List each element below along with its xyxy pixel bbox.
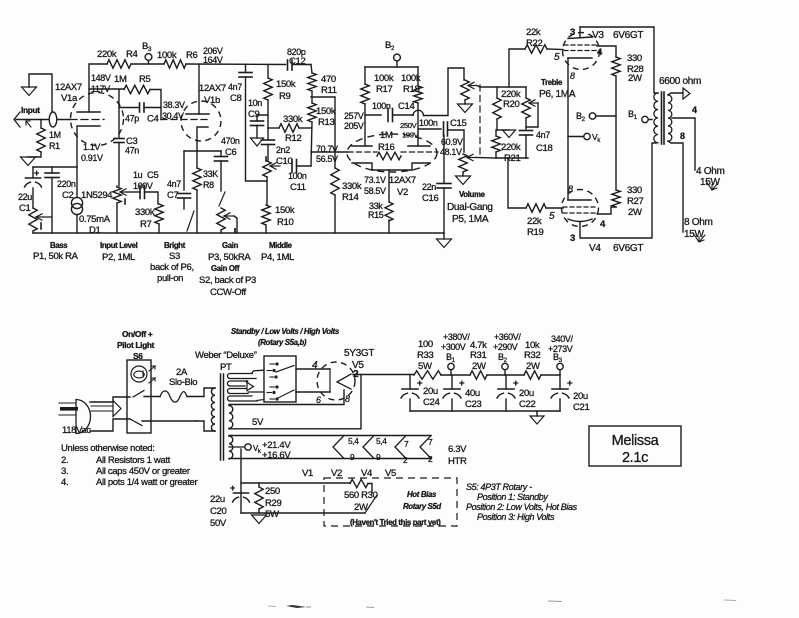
resistor R7 330k bbox=[155, 204, 163, 224]
rotary switch S5a,b box bbox=[264, 356, 296, 402]
capacitor C4 47p (across R5) bbox=[119, 90, 140, 108]
wire R4 to B3 node bbox=[131, 63, 164, 65]
capacitor C10 2n2 bbox=[267, 128, 269, 140]
svg-text:C2: C2 bbox=[62, 190, 74, 201]
resistor R30 560 2W bbox=[350, 479, 368, 487]
svg-text:P2, 1ML: P2, 1ML bbox=[102, 252, 135, 263]
AC plug bbox=[59, 402, 75, 404]
svg-text:Position 3: High Volts: Position 3: High Volts bbox=[477, 512, 555, 522]
svg-text:R9: R9 bbox=[279, 91, 291, 102]
wire screen supply node bbox=[615, 76, 617, 190]
svg-text:22u: 22u bbox=[18, 192, 32, 202]
PT HV center tap arrow bbox=[247, 383, 254, 391]
svg-text:+360V/: +360V/ bbox=[494, 332, 521, 342]
svg-text:C5: C5 bbox=[147, 170, 159, 181]
capacitor C9 10n with ground bbox=[257, 115, 268, 121]
svg-text:S2, back of P3: S2, back of P3 bbox=[199, 275, 256, 286]
S5b contacts bbox=[275, 385, 278, 388]
potentiometer P1 bass 50k RA bbox=[29, 208, 37, 231]
svg-text:118Vac: 118Vac bbox=[62, 425, 91, 436]
V3 screen lead to R28 bbox=[597, 46, 616, 57]
svg-text:1N5294: 1N5294 bbox=[81, 190, 113, 201]
P5 lower wiper arrow bbox=[467, 157, 476, 159]
V2 left plate bbox=[352, 145, 372, 147]
heater line top bbox=[229, 435, 431, 437]
resistor R18 100k bbox=[414, 86, 422, 103]
PT HV top lead to rotary bbox=[252, 370, 264, 373]
V2 right plate bbox=[408, 145, 430, 147]
PT core bbox=[220, 374, 222, 460]
terminal Vk bias tap bbox=[229, 446, 245, 448]
svg-text:12AX7: 12AX7 bbox=[55, 82, 82, 93]
V1a plate bbox=[77, 111, 100, 113]
svg-text:40u: 40u bbox=[465, 388, 480, 399]
svg-text:58.5V: 58.5V bbox=[364, 186, 386, 196]
svg-text:150k: 150k bbox=[276, 79, 296, 90]
scan smudge bottom bbox=[286, 605, 306, 608]
svg-text:2n2: 2n2 bbox=[276, 145, 290, 155]
svg-text:2W: 2W bbox=[628, 207, 642, 218]
PT 5V winding bbox=[229, 406, 233, 429]
svg-text:Unless otherwise noted:: Unless otherwise noted: bbox=[61, 443, 155, 454]
svg-text:9: 9 bbox=[350, 452, 355, 462]
switch S5d blade bbox=[365, 495, 377, 513]
S5a arm bbox=[276, 366, 294, 373]
V2 left plate lead / R17 bbox=[364, 104, 366, 146]
svg-text:C14: C14 bbox=[398, 101, 415, 112]
resistor R27 330 2W bbox=[612, 190, 620, 207]
output transformer OT primary winding bbox=[654, 93, 658, 143]
svg-text:5: 5 bbox=[554, 52, 560, 63]
svg-text:C15: C15 bbox=[450, 118, 466, 129]
svg-text:Bass: Bass bbox=[50, 241, 68, 250]
resistor R33 100 5W bbox=[414, 371, 441, 379]
svg-text:1: 1 bbox=[634, 114, 638, 121]
wire cathode rail to C1/C2/D1 bbox=[33, 166, 77, 168]
svg-text:R29: R29 bbox=[265, 498, 281, 509]
svg-text:back of P6,: back of P6, bbox=[150, 262, 194, 273]
capacitor C14 100n bbox=[365, 114, 381, 116]
svg-text:50V: 50V bbox=[210, 518, 227, 529]
svg-text:8: 8 bbox=[570, 71, 575, 81]
V1b plate bbox=[186, 113, 209, 115]
svg-text:C12: C12 bbox=[289, 56, 305, 67]
svg-text:V2: V2 bbox=[397, 187, 408, 198]
svg-text:R16: R16 bbox=[378, 142, 394, 153]
svg-text:R7: R7 bbox=[140, 219, 152, 230]
svg-text:4: 4 bbox=[600, 219, 606, 230]
svg-text:4: 4 bbox=[692, 105, 697, 115]
svg-text:3: 3 bbox=[570, 27, 575, 38]
wire R5 to V1b grid bbox=[150, 90, 161, 120]
wire input jack to V1a grid bbox=[16, 119, 70, 121]
resistor R1 1M bbox=[40, 120, 42, 129]
svg-text:47n: 47n bbox=[125, 146, 139, 156]
svg-text:pull-on: pull-on bbox=[157, 273, 183, 284]
resistor R4 220k bbox=[107, 60, 131, 68]
S5b arm bbox=[277, 390, 294, 399]
svg-text:2: 2 bbox=[403, 455, 408, 465]
wire plug to S6 bottom bbox=[90, 419, 130, 431]
svg-text:+: + bbox=[34, 168, 39, 178]
svg-text:4 Ohm: 4 Ohm bbox=[696, 166, 725, 177]
svg-text:R14: R14 bbox=[342, 192, 359, 203]
svg-text:330: 330 bbox=[627, 53, 642, 64]
svg-text:0.75mA: 0.75mA bbox=[79, 214, 111, 225]
svg-text:V5: V5 bbox=[385, 468, 396, 479]
switch S3 blade (bright) bbox=[187, 211, 194, 231]
svg-text:250V: 250V bbox=[400, 121, 418, 130]
svg-text:250: 250 bbox=[265, 486, 280, 497]
wire bias bottom rail bbox=[241, 512, 365, 514]
capacitor C2 220n bbox=[51, 167, 53, 173]
svg-text:47p: 47p bbox=[125, 114, 139, 124]
resistor R13 150k bbox=[311, 91, 313, 103]
wire treble node to R19 bbox=[496, 157, 528, 159]
svg-text:Weber “Deluxe”: Weber “Deluxe” bbox=[195, 350, 257, 361]
P6 wiper arrow tied to bottom bbox=[529, 102, 538, 104]
svg-text:560 R30: 560 R30 bbox=[344, 490, 378, 501]
svg-text:R12: R12 bbox=[285, 133, 301, 144]
capacitor C12 820p (in rail) bbox=[287, 60, 289, 70]
svg-text:1u: 1u bbox=[133, 170, 143, 180]
P2 wiper arrow bbox=[120, 191, 127, 193]
svg-text:(Haven't Tried this part yet): (Haven't Tried this part yet) bbox=[350, 518, 441, 527]
svg-text:Standby / Low Volts / High Vol: Standby / Low Volts / High Volts bbox=[231, 327, 340, 336]
jack tip contact arrow bbox=[26, 121, 31, 127]
capacitor C21 20u bbox=[559, 375, 561, 389]
resistor R28 330 2W bbox=[612, 57, 620, 76]
capacitor C11 100n bbox=[291, 160, 293, 173]
potentiometer P4 middle bbox=[265, 157, 267, 161]
tube V4 6V6GT envelope bbox=[562, 190, 599, 227]
pilot light terminals bbox=[149, 366, 155, 371]
switch S6 top contact bbox=[133, 391, 144, 398]
svg-text:Gain Off: Gain Off bbox=[211, 264, 240, 273]
ground below R1 bbox=[28, 152, 41, 157]
tube V3 6V6GT envelope bbox=[563, 33, 600, 70]
V5 plates strap bbox=[329, 369, 331, 392]
svg-text:R8: R8 bbox=[203, 180, 214, 190]
capacitor C6 470n bbox=[220, 151, 222, 157]
ground below P5 upper bbox=[464, 100, 466, 104]
svg-text:330k: 330k bbox=[342, 181, 362, 192]
svg-text:470: 470 bbox=[321, 74, 336, 85]
wire S6 bottom to PT primary bbox=[196, 421, 215, 431]
svg-text:220k: 220k bbox=[97, 49, 117, 60]
svg-text:All Resistors 1 watt: All Resistors 1 watt bbox=[96, 455, 171, 466]
svg-text:8 Ohm: 8 Ohm bbox=[684, 217, 713, 228]
switch box S6 bbox=[127, 360, 151, 433]
svg-text:V1a: V1a bbox=[61, 93, 78, 104]
pilot light lamp bbox=[131, 366, 147, 382]
Melissa title box bbox=[589, 426, 681, 466]
svg-text:C10: C10 bbox=[276, 156, 292, 167]
V1a cathode bbox=[77, 126, 100, 167]
capacitor C18 4n7 bbox=[520, 130, 533, 132]
tube V1a 12AX7 envelope bbox=[71, 93, 124, 146]
wire C14 to volume pot feed bbox=[424, 68, 465, 116]
svg-text:Middle: Middle bbox=[269, 241, 293, 250]
wire rail R33-R31 bbox=[441, 374, 470, 376]
capacitor C3 47n (plate coupling) bbox=[118, 108, 120, 139]
V1a grid (dashed) bbox=[70, 119, 104, 121]
svg-text:R22: R22 bbox=[526, 38, 542, 49]
wire V5 pin 8 to 5V winding top bbox=[229, 390, 344, 405]
PT 6.3V winding bbox=[229, 436, 233, 459]
svg-text:Pilot Light: Pilot Light bbox=[117, 340, 155, 350]
V1b cathode bbox=[197, 127, 208, 168]
switch S6 bottom contact bbox=[130, 419, 142, 426]
svg-text:205V: 205V bbox=[344, 121, 364, 131]
svg-text:Slo-Blo: Slo-Blo bbox=[169, 377, 197, 388]
P3 wiper arrow bbox=[224, 215, 234, 217]
wire rotary to V5 pin 4 bbox=[296, 368, 330, 370]
V1b grid (dashed) bbox=[161, 119, 209, 121]
capacitor C8 4n7 bbox=[245, 65, 247, 73]
svg-text:+: + bbox=[567, 378, 573, 389]
svg-text:220k: 220k bbox=[501, 142, 521, 153]
svg-text:Position 2: Low Volts, Hot Bia: Position 2: Low Volts, Hot Bias bbox=[466, 502, 578, 512]
ground filter caps bbox=[536, 411, 538, 416]
svg-text:P6, 1MA: P6, 1MA bbox=[539, 89, 576, 100]
potentiometer P2 input level bbox=[116, 186, 118, 187]
svg-text:6V6GT: 6V6GT bbox=[613, 30, 643, 41]
svg-text:0.91V: 0.91V bbox=[81, 153, 103, 163]
svg-text:On/Off +: On/Off + bbox=[122, 329, 153, 339]
svg-text:Melissa: Melissa bbox=[612, 433, 660, 449]
V3 grids (dashed) bbox=[564, 44, 597, 46]
svg-text:+380V/: +380V/ bbox=[443, 332, 470, 342]
svg-text:R33: R33 bbox=[417, 350, 433, 361]
svg-text:5,4: 5,4 bbox=[348, 436, 359, 446]
svg-text:6V6GT: 6V6GT bbox=[613, 243, 643, 254]
wire R6 to V1b plate lead and on to C8/C12 rail bbox=[186, 63, 286, 66]
capacitor C5 1u 100V bbox=[127, 191, 140, 193]
wire fuse to PT primary bbox=[187, 388, 215, 397]
svg-text:V2: V2 bbox=[331, 468, 342, 479]
svg-text:8: 8 bbox=[680, 131, 685, 141]
svg-text:2.1c: 2.1c bbox=[622, 450, 648, 466]
resistor R8 33K bbox=[193, 168, 201, 190]
svg-text:2: 2 bbox=[582, 116, 586, 123]
svg-text:3: 3 bbox=[570, 233, 575, 244]
P1 wiper arrow bbox=[36, 216, 52, 218]
svg-text:R6: R6 bbox=[186, 50, 198, 61]
svg-text:D1: D1 bbox=[89, 225, 101, 236]
V4 grids (dashed) bbox=[563, 206, 596, 208]
P4 wiper arrow bbox=[270, 165, 280, 167]
svg-text:6600 ohm: 6600 ohm bbox=[659, 76, 701, 87]
resistor R22 22k bbox=[509, 49, 525, 87]
terminal Vk cathode test point bbox=[584, 133, 590, 139]
grid stopper bead on V1a grid wire bbox=[49, 112, 57, 127]
svg-text:4n7: 4n7 bbox=[228, 82, 242, 92]
svg-text:+16.6V: +16.6V bbox=[262, 450, 291, 461]
svg-text:V1: V1 bbox=[302, 468, 313, 479]
svg-text:Volume: Volume bbox=[459, 190, 486, 199]
svg-text:C22: C22 bbox=[519, 399, 535, 410]
wire C8 drop to P4 bottom bbox=[246, 78, 268, 181]
wire bias rail bbox=[241, 482, 350, 484]
svg-text:22k: 22k bbox=[527, 216, 542, 227]
svg-text:20u: 20u bbox=[423, 386, 438, 397]
svg-text:6.3V: 6.3V bbox=[448, 444, 467, 455]
OT secondary common tap with arrow bbox=[668, 93, 683, 95]
V4 screen lead to R27 bbox=[597, 207, 616, 214]
OT secondary winding bbox=[668, 95, 672, 141]
svg-text:15W: 15W bbox=[700, 177, 721, 188]
svg-text:C24: C24 bbox=[423, 397, 440, 408]
svg-text:R15: R15 bbox=[368, 210, 384, 220]
resistor R16 1M (between grids) bbox=[377, 152, 401, 160]
wire rotary to V5 pin 6 bbox=[296, 391, 330, 393]
wire rail R31-R32 bbox=[487, 374, 524, 376]
input jack J1 bbox=[14, 112, 20, 127]
svg-text:20u: 20u bbox=[573, 391, 588, 402]
svg-text:100k: 100k bbox=[374, 73, 394, 84]
hot bias dashed box bbox=[324, 478, 457, 526]
svg-text:R10: R10 bbox=[277, 217, 293, 228]
svg-text:C16: C16 bbox=[422, 193, 438, 204]
svg-text:340V/: 340V/ bbox=[551, 334, 574, 344]
svg-text:4n7: 4n7 bbox=[167, 179, 181, 189]
resistor R6 100k bbox=[164, 60, 186, 68]
svg-text:C21: C21 bbox=[573, 402, 589, 413]
line cord arrow bbox=[91, 405, 113, 407]
svg-text:100V: 100V bbox=[133, 181, 153, 191]
potentiometer P6 treble 1MA bbox=[525, 87, 527, 98]
V2 grid left (dashed) bbox=[348, 151, 377, 153]
dashed gang line P5 bbox=[479, 85, 481, 155]
svg-text:22k: 22k bbox=[526, 27, 541, 38]
resistor R15 33k bbox=[385, 202, 393, 221]
svg-text:+300V: +300V bbox=[441, 342, 466, 352]
svg-text:P4, 1ML: P4, 1ML bbox=[261, 252, 294, 263]
tube V1b 12AX7 envelope bbox=[181, 101, 221, 141]
svg-text:V1b: V1b bbox=[204, 95, 220, 106]
wire V3 plate to OT primary top bbox=[580, 27, 658, 93]
svg-text:R19: R19 bbox=[527, 227, 543, 238]
svg-text:S3: S3 bbox=[169, 251, 180, 262]
svg-text:10n: 10n bbox=[248, 98, 262, 108]
svg-text:P1, 50k RA: P1, 50k RA bbox=[33, 251, 79, 262]
wire grid feed to V2 bbox=[311, 151, 348, 153]
svg-text:R27: R27 bbox=[627, 196, 643, 207]
svg-text:199V: 199V bbox=[402, 131, 420, 140]
svg-text:150k: 150k bbox=[275, 205, 295, 216]
svg-text:7: 7 bbox=[428, 437, 433, 447]
svg-text:12AX7: 12AX7 bbox=[199, 83, 226, 94]
svg-text:12AX7: 12AX7 bbox=[389, 175, 416, 186]
wire ground bus (preamp) bbox=[33, 232, 444, 234]
resistor R11 470 bbox=[311, 65, 312, 74]
P5 upper wiper arrow bbox=[468, 85, 477, 87]
svg-text:5W: 5W bbox=[418, 361, 432, 372]
svg-text:220n: 220n bbox=[57, 179, 76, 189]
capacitor C15 100n bbox=[418, 128, 441, 130]
svg-text:Rotary S5d: Rotary S5d bbox=[403, 502, 441, 511]
capacitor C22 20u bbox=[505, 375, 507, 389]
svg-text:2.: 2. bbox=[61, 455, 68, 466]
wire V4 plate to OT primary bottom bbox=[580, 143, 656, 238]
svg-text:Treble: Treble bbox=[541, 78, 563, 87]
resistor R10 150k bbox=[266, 181, 268, 205]
resistor R9 150k bbox=[267, 65, 269, 79]
svg-text:Hot Bias: Hot Bias bbox=[407, 490, 437, 499]
svg-text:100n: 100n bbox=[288, 171, 307, 181]
ground below P5 lower bbox=[462, 172, 464, 176]
svg-text:Gain: Gain bbox=[222, 241, 239, 250]
resistor R21 220k bbox=[495, 130, 497, 136]
svg-text:164V: 164V bbox=[203, 55, 223, 65]
svg-text:2W: 2W bbox=[628, 73, 642, 84]
svg-text:100k: 100k bbox=[157, 50, 177, 61]
switch S2 blade (gain off, on P3) bbox=[219, 192, 225, 206]
resistor R20 220k bbox=[496, 87, 498, 98]
svg-text:4.: 4. bbox=[61, 477, 68, 488]
svg-text:R18: R18 bbox=[403, 84, 419, 95]
svg-text:100k: 100k bbox=[401, 73, 421, 84]
wire V5 pin 2 to B+ rail bbox=[353, 374, 414, 376]
capacitor C7 4n7 bbox=[178, 193, 191, 195]
svg-text:4: 4 bbox=[312, 360, 318, 371]
svg-text:C23: C23 bbox=[465, 399, 481, 410]
svg-text:470n: 470n bbox=[221, 136, 240, 146]
power transformer PT primary winding bbox=[211, 388, 215, 431]
wire V5 pin2 to 5V winding bottom bbox=[229, 375, 361, 429]
V5 plate chevron bbox=[337, 374, 351, 389]
svg-text:C8: C8 bbox=[230, 93, 242, 104]
potentiometer P5 volume upper section bbox=[461, 80, 469, 100]
wire R17-R18 top rail bbox=[365, 66, 418, 68]
svg-text:1.1V: 1.1V bbox=[83, 142, 100, 152]
svg-text:R13: R13 bbox=[318, 117, 334, 128]
svg-text:C20: C20 bbox=[210, 506, 226, 517]
svg-text:330k: 330k bbox=[283, 114, 303, 125]
svg-text:4: 4 bbox=[597, 47, 603, 58]
heater line bottom bbox=[229, 458, 431, 460]
V4 cathode bbox=[568, 199, 591, 201]
wire cathode node to C6/C7 branch bbox=[184, 150, 221, 152]
svg-text:R1: R1 bbox=[49, 141, 60, 151]
svg-text:100: 100 bbox=[418, 339, 433, 350]
V1b plate lead to rail bbox=[198, 65, 200, 115]
svg-text:100n: 100n bbox=[372, 101, 391, 111]
svg-text:(Rotary S5a,b): (Rotary S5a,b) bbox=[258, 338, 307, 347]
svg-text:Input: Input bbox=[21, 105, 40, 115]
svg-text:20u: 20u bbox=[519, 388, 534, 399]
svg-text:2W: 2W bbox=[526, 361, 540, 372]
ground below R29 bbox=[252, 515, 267, 524]
svg-text:V4: V4 bbox=[589, 243, 601, 254]
wire bias feed down bbox=[240, 449, 242, 513]
svg-text:1M: 1M bbox=[380, 130, 393, 141]
svg-text:Input Level: Input Level bbox=[100, 241, 138, 250]
resistor R29 250 5W bbox=[258, 483, 260, 487]
svg-text:R31: R31 bbox=[470, 350, 486, 361]
svg-text:148V: 148V bbox=[91, 73, 111, 83]
wire R11/R13 junction to R14 top bbox=[311, 97, 335, 168]
V3 plate bbox=[568, 37, 592, 39]
V2 cathodes bbox=[352, 163, 372, 170]
svg-text:100n: 100n bbox=[419, 118, 438, 128]
S5a contacts bbox=[275, 362, 278, 365]
svg-text:22u: 22u bbox=[210, 494, 225, 505]
svg-text:1M: 1M bbox=[49, 130, 61, 140]
OT 4-ohm tap bbox=[672, 118, 695, 170]
PT HV lower taps to rotary bbox=[248, 391, 264, 393]
